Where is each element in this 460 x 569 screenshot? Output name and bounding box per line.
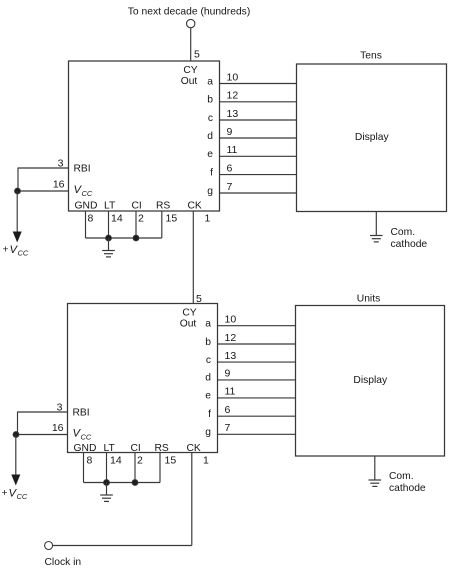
pin b wire to display, pin number 12	[207, 90, 296, 106]
svg-text:15: 15	[165, 455, 177, 467]
terminal circle clock in	[45, 542, 53, 550]
ground (Tens display)	[370, 212, 383, 242]
svg-text:16: 16	[53, 178, 65, 190]
svg-text:6: 6	[227, 162, 233, 174]
ground (Units display)	[369, 456, 382, 486]
svg-text:c: c	[208, 113, 213, 124]
label +Vcc (units)	[2, 488, 28, 502]
svg-text:e: e	[207, 149, 213, 160]
wire carry out (pin 5) up to terminal	[190, 28, 192, 61]
svg-text:CY: CY	[183, 65, 197, 76]
svg-text:CK: CK	[188, 200, 202, 211]
IC U2 74LS90 decade counter box	[69, 61, 220, 211]
svg-text:cathode: cathode	[389, 483, 426, 494]
svg-text:CY: CY	[182, 307, 196, 318]
wire clock in horizontal	[53, 545, 192, 547]
svg-text:10: 10	[225, 314, 237, 326]
svg-text:11: 11	[225, 386, 236, 398]
svg-text:15: 15	[166, 212, 178, 224]
svg-text:1: 1	[203, 455, 209, 467]
svg-text:2: 2	[138, 212, 144, 224]
svg-text:2: 2	[137, 455, 143, 467]
label Vcc U2	[74, 184, 93, 198]
pin numbers 8 14 2 15 1 (U1)	[87, 455, 210, 467]
svg-text:CI: CI	[132, 200, 142, 211]
wire corner RBI to Vcc node	[17, 168, 19, 192]
junction dot U2 Vcc node	[15, 188, 21, 194]
svg-text:RBI: RBI	[73, 408, 90, 419]
svg-text:7: 7	[225, 422, 231, 434]
svg-text:9: 9	[225, 368, 231, 380]
junction dot U1 Vcc node	[13, 432, 19, 438]
wire U1 CK down	[191, 453, 193, 546]
arrow head +Vcc (tens)	[13, 232, 22, 243]
svg-text:Display: Display	[355, 132, 390, 143]
svg-text:14: 14	[111, 212, 123, 224]
wire down to +Vcc arrow (units)	[15, 435, 17, 476]
pin f wire to display, pin number 6	[208, 404, 295, 420]
wire down to +Vcc arrow	[16, 191, 18, 232]
display Tens box	[297, 51, 447, 212]
pin c wire to display, pin number 13	[206, 350, 296, 366]
pin d wire to display, pin number 9	[207, 126, 296, 142]
svg-text:g: g	[205, 427, 211, 438]
svg-text:CC: CC	[81, 433, 92, 442]
svg-text:LT: LT	[104, 200, 116, 211]
svg-text:8: 8	[88, 212, 94, 224]
svg-text:RS: RS	[156, 200, 170, 211]
svg-text:Tens: Tens	[360, 51, 382, 62]
wire RBI U1	[18, 411, 68, 413]
svg-text:12: 12	[225, 332, 237, 344]
display Units box	[296, 293, 445, 456]
svg-text:9: 9	[227, 126, 233, 138]
svg-text:12: 12	[227, 90, 239, 102]
wire U2 CK down to U1 CY out (cascade)	[192, 211, 194, 304]
wire Vcc U2	[18, 190, 69, 192]
pin d wire to display, pin number 9	[205, 368, 295, 384]
svg-text:Out: Out	[181, 76, 198, 87]
bus wire joining GND LT CI RS (U1)	[84, 482, 161, 484]
pin g wire to display, pin number 7	[205, 422, 295, 438]
svg-text:e: e	[205, 391, 211, 402]
label +Vcc (tens)	[3, 244, 29, 258]
svg-text:b: b	[207, 95, 213, 106]
svg-text:a: a	[205, 319, 211, 330]
junction dot CI (U2)	[133, 235, 139, 241]
svg-text:RBI: RBI	[74, 164, 91, 175]
svg-text:CC: CC	[18, 249, 29, 258]
label Com. cathode (Tens)	[391, 227, 428, 250]
stub GND pin 8 (U2)	[85, 211, 87, 238]
svg-text:CC: CC	[17, 492, 28, 501]
ground (U1 bus)	[100, 483, 113, 502]
junction dot LT (U2)	[106, 235, 112, 241]
pin numbers 8 14 2 15 1 (U2)	[88, 212, 211, 224]
svg-text:+: +	[3, 245, 9, 256]
svg-text:7: 7	[227, 181, 233, 193]
svg-text:f: f	[210, 167, 213, 178]
U1 CY Out label	[180, 307, 197, 329]
stub LT pin 14 (U1)	[106, 453, 108, 483]
labels GND LT CI RS CK (U1)	[74, 443, 201, 454]
label Vcc U1	[73, 428, 92, 442]
svg-text:13: 13	[227, 108, 239, 120]
stub LT pin 14 (U2)	[108, 211, 110, 238]
label Com. cathode (Units)	[389, 471, 426, 494]
svg-text:13: 13	[225, 350, 237, 362]
svg-text:+: +	[2, 488, 8, 499]
svg-text:c: c	[206, 355, 211, 366]
svg-text:Com.: Com.	[389, 471, 414, 482]
pin e wire to display, pin number 11	[207, 144, 296, 160]
wire RBI U2	[18, 167, 69, 169]
svg-text:Com.: Com.	[391, 227, 416, 238]
stub RS pin 15 (U1)	[159, 453, 161, 483]
svg-text:16: 16	[52, 422, 64, 434]
svg-text:g: g	[207, 186, 213, 197]
junction dot LT (U1)	[104, 480, 110, 486]
svg-text:f: f	[208, 409, 211, 420]
svg-text:Display: Display	[353, 375, 388, 386]
svg-text:GND: GND	[75, 200, 98, 211]
svg-text:5: 5	[194, 49, 200, 61]
pin c wire to display, pin number 13	[208, 108, 297, 124]
svg-text:8: 8	[87, 455, 93, 467]
wire corner RBI to Vcc node (U1)	[17, 412, 19, 435]
stub GND pin 8 (U1)	[83, 453, 85, 483]
svg-text:CI: CI	[131, 443, 141, 454]
svg-text:cathode: cathode	[391, 239, 428, 250]
ground (U2 bus)	[102, 238, 115, 257]
stub RS pin 15 (U2)	[161, 211, 163, 238]
svg-text:6: 6	[225, 404, 231, 416]
U2 CY Out label	[181, 65, 198, 87]
svg-text:To next decade (hundreds): To next decade (hundreds)	[128, 7, 251, 18]
svg-text:d: d	[207, 131, 213, 142]
svg-text:11: 11	[227, 144, 238, 156]
stub CI pin 2 (U1)	[134, 453, 136, 483]
svg-text:LT: LT	[104, 443, 116, 454]
svg-text:RS: RS	[155, 443, 169, 454]
svg-text:Units: Units	[357, 293, 380, 304]
svg-text:Out: Out	[180, 318, 197, 329]
bus wire joining GND LT CI RS (U2)	[86, 237, 162, 239]
svg-text:GND: GND	[74, 443, 97, 454]
svg-text:d: d	[205, 373, 211, 384]
stub CI pin 2 (U2)	[135, 211, 137, 238]
pin g wire to display, pin number 7	[207, 181, 296, 197]
pin f wire to display, pin number 6	[210, 162, 296, 178]
svg-text:1: 1	[205, 212, 211, 224]
svg-text:CK: CK	[187, 443, 201, 454]
labels GND LT CI RS CK (U2)	[75, 200, 202, 211]
pin a wire to display, pin number 10	[205, 314, 295, 330]
pin b wire to display, pin number 12	[205, 332, 295, 348]
pin e wire to display, pin number 11	[205, 386, 295, 402]
wire Vcc U1	[16, 434, 68, 436]
svg-text:10: 10	[227, 71, 239, 83]
arrow head +Vcc (units)	[11, 475, 20, 486]
svg-text:14: 14	[110, 455, 122, 467]
svg-text:a: a	[207, 76, 213, 87]
svg-text:b: b	[205, 337, 211, 348]
terminal circle carry-out to next decade	[187, 19, 195, 27]
svg-text:CC: CC	[82, 189, 93, 198]
pin a wire to display, pin number 10	[207, 71, 296, 87]
junction dot CI (U1)	[132, 480, 138, 486]
IC U1 74LS90 decade counter box	[68, 304, 218, 453]
svg-text:Clock in: Clock in	[45, 557, 82, 568]
